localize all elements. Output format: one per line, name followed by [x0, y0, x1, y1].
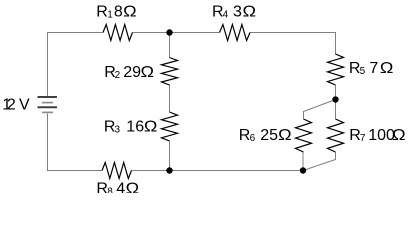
- battery long plate 2: [38, 106, 58, 108]
- label R8 4 ohm: [96, 180, 139, 197]
- resistor R8: [102, 163, 132, 179]
- svg-text:Ω: Ω: [243, 4, 257, 21]
- wire R3 to node D: [169, 141, 171, 171]
- svg-text:100: 100: [368, 127, 395, 144]
- svg-text:Ω: Ω: [123, 3, 137, 20]
- svg-text:V: V: [19, 97, 30, 114]
- wire node A down to R2: [169, 33, 171, 58]
- svg-text:25: 25: [260, 127, 278, 144]
- svg-text:Ω: Ω: [278, 127, 292, 144]
- svg-text:5: 5: [360, 66, 366, 77]
- wire top rail R1 to R4: [133, 32, 220, 34]
- node B junction dot: [332, 96, 338, 102]
- label R4 3 ohm: [212, 4, 256, 21]
- resistor R4: [220, 25, 251, 41]
- node C junction dot: [300, 167, 306, 173]
- svg-text:2: 2: [7, 97, 16, 114]
- label R2 29 ohm: [104, 64, 154, 81]
- wire bottom rail R8 to node C: [132, 170, 304, 172]
- resistor R1: [103, 25, 133, 41]
- wire R2 to R3: [169, 85, 171, 112]
- svg-text:Ω: Ω: [126, 180, 140, 193]
- wire R6 bottom to node C: [302, 152, 304, 171]
- wire R7 bottom slant to node C: [303, 152, 336, 171]
- svg-text:7: 7: [360, 133, 366, 144]
- label R6 25 ohm: [239, 127, 292, 144]
- label R5 7 ohm: [349, 60, 394, 77]
- svg-text:16: 16: [126, 119, 144, 136]
- resistor R3: [162, 112, 178, 141]
- resistor R5: [328, 54, 344, 85]
- label R7 100 ohm: [349, 127, 405, 144]
- svg-text:Ω: Ω: [144, 119, 158, 136]
- resistor R6: [296, 119, 312, 152]
- wire node B slant to R6 top: [304, 100, 336, 120]
- resistor R2: [162, 58, 178, 86]
- wire node B down to R7 top: [335, 100, 337, 120]
- svg-text:29: 29: [123, 64, 141, 81]
- svg-text:4: 4: [223, 10, 229, 21]
- svg-text:4: 4: [116, 180, 125, 193]
- battery short plate 2: [42, 111, 53, 113]
- svg-text:8: 8: [107, 186, 113, 193]
- svg-text:Ω: Ω: [141, 64, 155, 81]
- svg-text:R: R: [96, 3, 108, 20]
- wire top rail left + left column to battery: [48, 33, 104, 97]
- label 12 V source value: [2, 97, 30, 114]
- battery V1 long plate top: [38, 96, 58, 98]
- svg-text:R: R: [96, 180, 108, 193]
- svg-text:Ω: Ω: [380, 60, 394, 77]
- label R3 16 ohm: [104, 119, 158, 136]
- svg-text:7: 7: [369, 60, 378, 77]
- node D junction dot: [166, 167, 172, 173]
- wire R5 bottom to node B: [335, 85, 337, 100]
- resistor R7: [328, 119, 344, 152]
- battery short plate 1: [42, 102, 53, 104]
- wire top rail R4 to right column down to R5: [250, 33, 336, 55]
- label R1 8 ohm: [96, 3, 136, 20]
- svg-text:8: 8: [114, 3, 123, 20]
- wire battery bottom + bottom rail to R8: [48, 114, 103, 171]
- svg-text:3: 3: [233, 4, 242, 21]
- svg-text:2: 2: [115, 70, 121, 81]
- svg-text:Ω: Ω: [392, 127, 406, 144]
- svg-text:3: 3: [115, 125, 121, 136]
- svg-text:6: 6: [250, 133, 256, 144]
- svg-text:1: 1: [107, 9, 113, 20]
- node A junction dot: [166, 29, 172, 35]
